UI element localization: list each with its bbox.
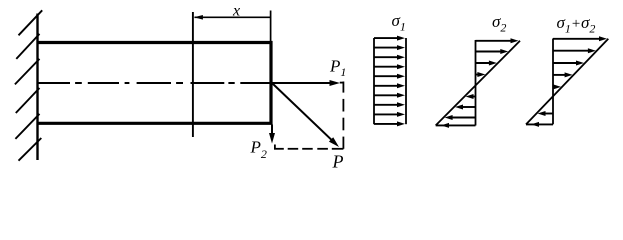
wall hatch 4 (16, 88, 40, 113)
sigma1 stress arrow 3 (374, 56, 400, 58)
sigma2 right arrow y=74.5 (476, 74, 481, 76)
sigma1+sigma2 top edge arrow (553, 38, 602, 40)
sigma2 left arrow y=117.5 (450, 117, 476, 119)
sigma1 diagram right boundary line (405, 38, 407, 124)
sigma1 diagram left axis line (373, 38, 375, 124)
beam bottom edge (37, 122, 273, 125)
dashed construction line (horizontal, parallelogram) (274, 145, 276, 149)
dimension extension line (right) (270, 11, 272, 43)
sigma2 left arrow y=107 (460, 106, 476, 108)
force P2 arrow (vertical component) (271, 125, 273, 137)
wall hatch 3 (15, 59, 40, 85)
svg-text:P: P (332, 152, 344, 172)
sigma1+sigma2 right arrow y=50.7 (553, 50, 591, 52)
sigma2 right arrow y=63 (476, 62, 492, 64)
wall hatch 6 (19, 138, 42, 161)
sigma1 stress arrow 9 (374, 113, 400, 115)
sigma1+sigma2 profile diagonal (526, 39, 608, 125)
sigma1 stress arrow 1 (374, 37, 400, 39)
sigma1 stress arrow 5 (374, 75, 400, 77)
dashed construction line (vertical, parallelogram) (340, 82, 344, 84)
beam right end edge (269, 41, 272, 125)
sigma2 profile diagonal (436, 41, 520, 126)
sigma2 left arrow y=96.5 (471, 96, 476, 98)
sigma1 stress arrow 7 (374, 94, 400, 96)
svg-text:x: x (232, 2, 240, 19)
dimension line for x (195, 16, 271, 18)
beam top edge (37, 41, 273, 44)
sigma2 top edge arrow (476, 40, 515, 42)
sigma1 stress arrow 6 (374, 85, 400, 87)
sigma1+sigma2 right arrow y=74.9 (553, 74, 568, 76)
sigma2 right arrow y=51.5 (476, 51, 504, 53)
sigma1+sigma2 left arrow (543, 113, 554, 115)
wall hatch 2 (16, 34, 39, 59)
force P arrow (resultant, inclined) (273, 84, 333, 141)
wall hatch 1 (19, 10, 43, 35)
sigma1+sigma2 right arrow y=86.9 (553, 86, 556, 88)
beam centerline (dash-dot) (38, 82, 70, 84)
sigma2 diagram axis line (475, 40, 477, 126)
sigma1+sigma2 diagram axis line (552, 39, 554, 125)
wall hatch 5 (15, 114, 39, 139)
force P1 arrow (horizontal component) (272, 82, 332, 84)
sigma1 stress arrow 4 (374, 66, 400, 68)
sigma1 stress arrow 10 (374, 123, 400, 125)
sigma2 bottom edge arrow (436, 124, 476, 126)
sigma1 stress arrow 8 (374, 104, 400, 106)
sigma1+sigma2 bottom edge arrow (526, 123, 553, 125)
sigma1+sigma2 right arrow y=63.0 (553, 62, 579, 64)
sigma1 stress arrow 2 (374, 47, 400, 49)
section line at distance x (192, 12, 194, 137)
fixed wall support line (36, 14, 38, 161)
